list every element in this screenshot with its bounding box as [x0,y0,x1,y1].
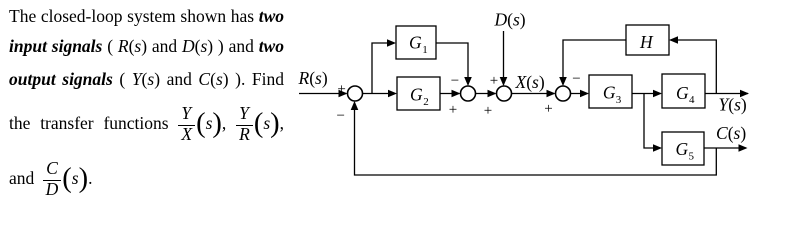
wire feedback bottom to S1 [355,103,717,176]
wire branch up to G1 [372,43,394,94]
arrowhead feedback into S1 [351,101,359,110]
svg-text:X(s): X(s) [515,72,545,92]
svg-text:−: − [572,71,580,87]
svg-text:+: + [490,73,498,89]
arrowhead into S1 [339,90,348,98]
wire G1 out down to S2 [436,43,468,85]
svg-text:G: G [676,83,689,103]
wire S1 to G2 [363,93,396,95]
wire G5 out to C(s) [704,147,746,149]
paragraph line 3 [9,66,284,92]
arrowhead into G1 [387,39,396,47]
arrowhead down into S2 [464,77,472,86]
arrowhead into S3 [488,90,497,98]
block G1 [396,26,436,59]
paragraph line 5 [9,160,92,197]
svg-text:+: + [337,81,345,97]
arrowhead into G2 [388,90,397,98]
wire branch down to G5 [644,94,661,149]
paragraph line 2 [9,33,284,59]
svg-text:+: + [484,103,492,119]
wire G4 out to Y(s) [705,93,748,95]
wire S2 to S3 [476,93,496,95]
svg-text:−: − [451,73,459,89]
svg-text:3: 3 [616,94,622,106]
svg-text:R(s): R(s) [298,68,328,88]
svg-text:−: − [336,108,344,124]
svg-text:H: H [639,32,654,52]
svg-text:+: + [544,101,552,117]
arrowhead into H [669,36,678,44]
svg-text:D(s): D(s) [494,10,526,30]
arrowhead D into S3 [500,77,508,86]
paragraph line 1 [9,3,284,29]
svg-text:4: 4 [689,94,695,106]
wire S4 to G3 [571,93,588,95]
block H [626,25,669,55]
paragraph line 4 [9,105,284,142]
block G5 [662,132,704,165]
summing junction S1 [348,86,363,101]
summing junction S2 [461,86,476,101]
svg-text:G: G [410,85,423,105]
svg-text:5: 5 [689,150,695,162]
arrowhead into G5 [653,144,662,152]
wire S3 to S4 node X [512,93,555,95]
block G4 [662,74,705,108]
block G3 [589,75,632,108]
arrowhead into G4 [653,90,662,98]
wire G2 out to S2 [440,93,459,95]
summing junction S4 [556,86,571,101]
svg-text:G: G [409,33,422,53]
arrowhead Y(s) output [740,90,749,98]
wire G3 to G4 [632,93,661,95]
svg-text:Y(s): Y(s) [719,95,747,115]
arrowhead into S4 [547,90,556,98]
wire tap up to H input [671,40,717,94]
svg-text:G: G [676,139,689,159]
svg-text:1: 1 [422,44,428,56]
svg-text:C(s): C(s) [716,123,746,143]
arrowhead G2 into S2 [452,90,461,98]
arrowhead C(s) output [739,144,748,152]
svg-text:2: 2 [423,96,429,108]
svg-text:G: G [603,83,616,103]
wire H out down to S4 [563,40,626,85]
block G2 [397,77,440,110]
wire D(s) down to S3 [503,31,505,85]
arrowhead H into S4 [559,77,567,86]
summing junction S3 [497,86,512,101]
wire R input [299,93,346,95]
arrowhead into G3 [580,90,589,98]
svg-text:+: + [449,102,457,118]
